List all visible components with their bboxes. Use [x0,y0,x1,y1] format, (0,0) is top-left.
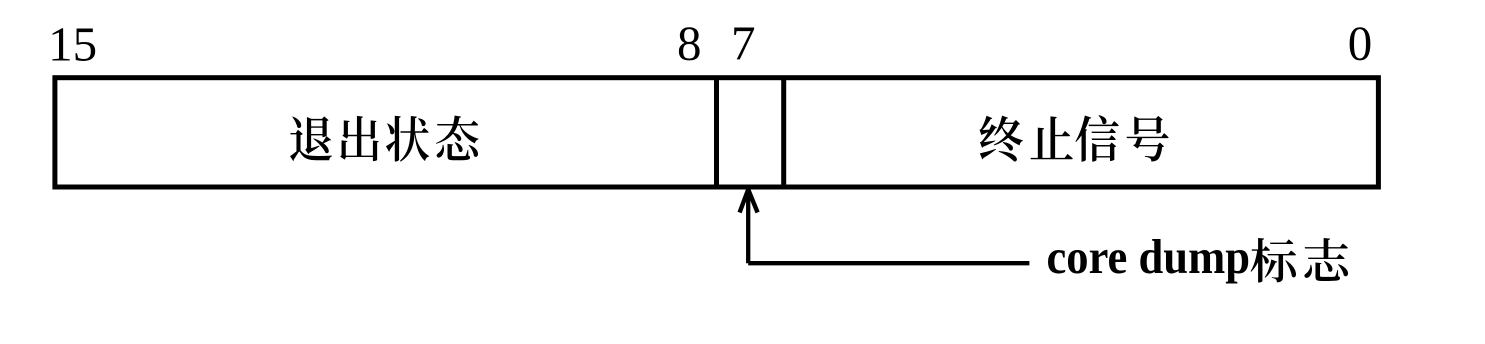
register box (16-bit status word) [55,78,1379,187]
label: core dump标志 (core dump flag) [1047,229,1349,284]
svg-text:7: 7 [731,16,756,71]
svg-text:15: 15 [48,16,97,71]
svg-text:core dump: core dump [1047,229,1251,284]
field divider between bit 7 and bit 6 [781,78,786,187]
field divider between bit 8 and bit 7 [714,78,719,187]
svg-text:8: 8 [677,16,702,71]
field text: 退出状态 (exit status, bits 15-8) [290,116,478,162]
arrow pointing at bit 7 cell [740,190,1030,264]
field text: 终止信号 (termination signal, bits 6-0) [979,115,1168,161]
svg-text:0: 0 [1348,16,1373,71]
